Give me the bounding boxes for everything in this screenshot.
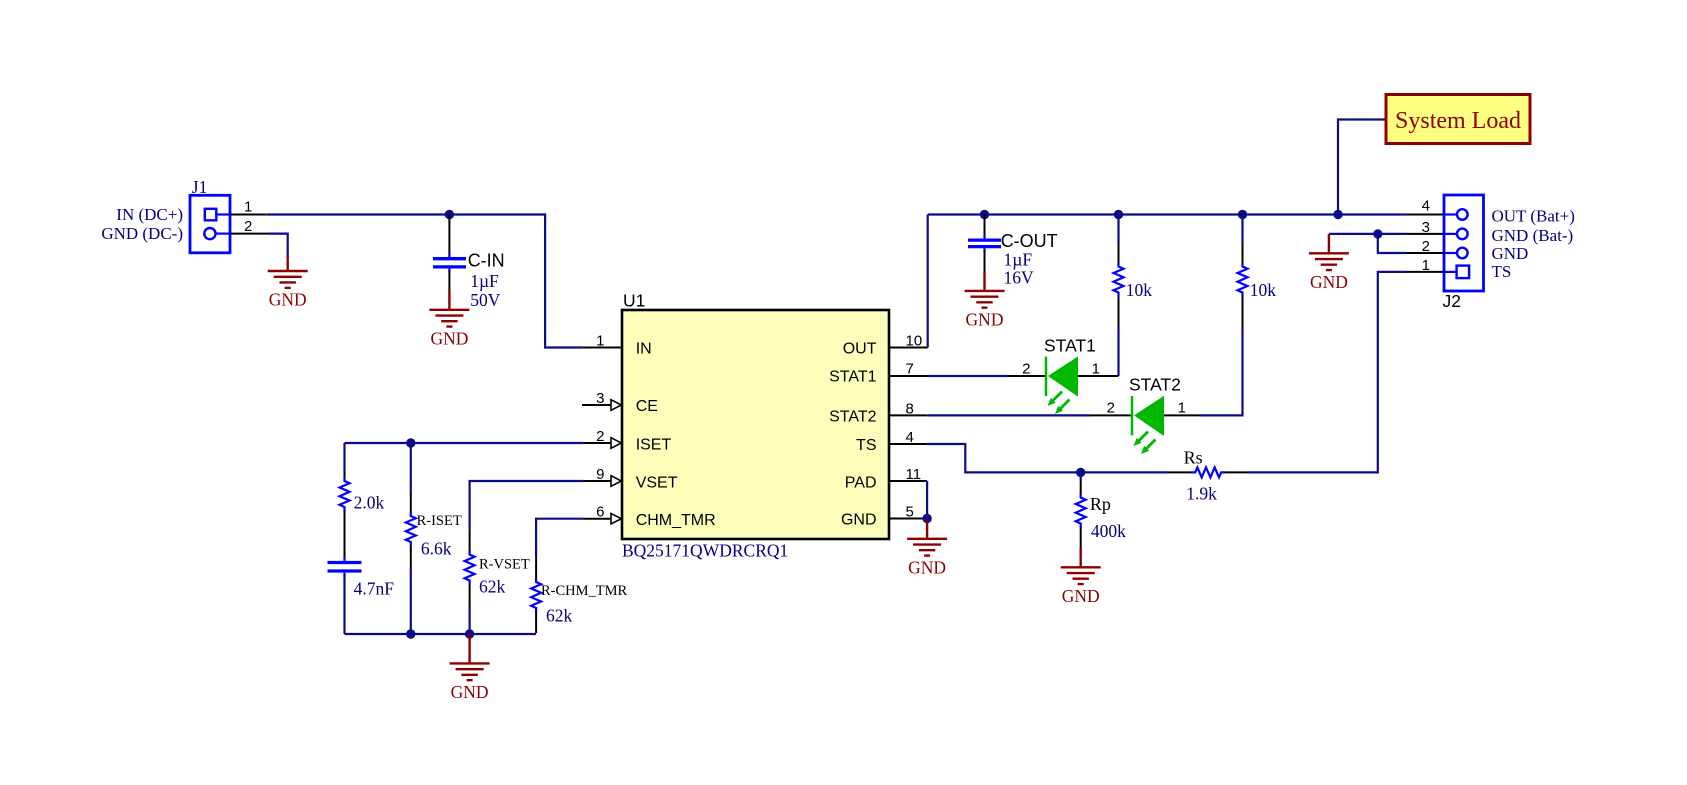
svg-text:1µF: 1µF (1004, 250, 1033, 270)
svg-text:1.9k: 1.9k (1186, 484, 1217, 504)
resistor R2 10k (1238, 215, 1248, 416)
svg-text:5: 5 (906, 504, 914, 521)
ground J1 (287, 255, 289, 271)
wire TS from U1 (926, 444, 1167, 472)
svg-text:400k: 400k (1091, 521, 1126, 541)
svg-text:2.0k: 2.0k (354, 493, 385, 513)
wire ISET net (345, 442, 584, 444)
pin 8 STAT2 stub (889, 414, 928, 416)
svg-text:10k: 10k (1126, 280, 1153, 300)
node bottom R-ISET (406, 629, 415, 638)
svg-text:6: 6 (596, 504, 604, 521)
svg-text:1: 1 (1178, 399, 1186, 416)
pin 6 CHM_TMR stub with input arrow (583, 518, 611, 520)
wire CHM_TMR net (536, 519, 583, 558)
svg-text:STAT2: STAT2 (1129, 375, 1181, 395)
wire J1 pin2 to ground (269, 234, 288, 256)
svg-text:8: 8 (906, 400, 914, 417)
svg-text:OUT (Bat+): OUT (Bat+) (1492, 206, 1575, 225)
wire OUT riser (927, 215, 929, 348)
wire J1 pin1 lead (230, 214, 267, 216)
svg-text:9: 9 (596, 466, 604, 483)
pin 1 IN stub (583, 347, 622, 349)
svg-text:U1: U1 (623, 291, 645, 311)
svg-text:STAT1: STAT1 (829, 368, 877, 385)
svg-text:CHM_TMR: CHM_TMR (636, 512, 716, 529)
svg-text:GND (Bat-): GND (Bat-) (1492, 226, 1574, 245)
svg-text:BQ25171QWDRCRQ1: BQ25171QWDRCRQ1 (622, 541, 788, 561)
node TS Rp junction (1076, 468, 1085, 477)
svg-text:1: 1 (244, 199, 252, 216)
svg-text:62k: 62k (479, 577, 506, 597)
svg-text:C-OUT: C-OUT (1001, 231, 1058, 251)
ground J2 (1328, 234, 1330, 253)
svg-text:2: 2 (1022, 360, 1030, 377)
svg-text:1: 1 (596, 333, 604, 350)
svg-text:GND (DC-): GND (DC-) (101, 224, 183, 243)
svg-text:IN: IN (636, 341, 652, 358)
IC U1 body (622, 310, 889, 539)
node J2 GND junction (1373, 229, 1382, 238)
resistor Rs 1.9k (1167, 467, 1248, 477)
wire STAT1 from U1 (928, 375, 1008, 377)
resistor Rp 400k (1076, 472, 1086, 549)
node VIN C-IN junction (445, 210, 454, 219)
ground C-IN (448, 290, 450, 310)
svg-text:11: 11 (906, 466, 922, 483)
capacitor C-IN (433, 215, 466, 292)
LED STAT1 (1008, 356, 1119, 414)
svg-text:Rp: Rp (1090, 494, 1111, 514)
node C-OUT junction (980, 210, 989, 219)
pin 4 TS stub (889, 443, 926, 445)
svg-text:4: 4 (906, 429, 914, 446)
resistor R-ISET 6.6k (406, 443, 416, 634)
ground Rp (1079, 548, 1081, 567)
capacitor C-OUT (968, 215, 1001, 273)
pin 9 VSET stub with input arrow (583, 480, 611, 482)
svg-text:3: 3 (596, 390, 604, 407)
svg-text:6.6k: 6.6k (421, 539, 452, 559)
pin 11 PAD stub (889, 480, 927, 482)
connector J2 (1444, 195, 1484, 291)
wire J2 pin3 lead (1378, 233, 1444, 235)
wire J2 pin2 lead (1378, 234, 1444, 253)
node R1 junction (1114, 210, 1123, 219)
svg-text:R-VSET: R-VSET (479, 557, 530, 573)
capacitor 4.7nF (328, 557, 362, 635)
svg-text:PAD: PAD (845, 474, 877, 491)
ground bottom bus (468, 634, 470, 663)
svg-text:IN (DC+): IN (DC+) (116, 205, 183, 224)
svg-text:4.7nF: 4.7nF (354, 579, 395, 599)
resistor R-VSET 62k (465, 530, 475, 634)
wire STAT2 to R2 (1200, 414, 1244, 416)
svg-text:10k: 10k (1250, 280, 1277, 300)
svg-text:GND: GND (1492, 244, 1529, 263)
svg-text:10: 10 (906, 332, 923, 349)
svg-text:1: 1 (1422, 257, 1430, 274)
svg-text:STAT1: STAT1 (1044, 336, 1096, 356)
node bottom R-VSET (465, 629, 474, 638)
wire TS to J2 pin1 (1248, 272, 1406, 473)
svg-text:1: 1 (1092, 360, 1100, 377)
pin 5 GND stub (889, 518, 923, 520)
node system load junction (1333, 210, 1342, 219)
LED STAT2 (1090, 396, 1200, 454)
svg-text:J2: J2 (1443, 291, 1461, 311)
svg-text:2: 2 (1422, 238, 1430, 255)
svg-text:2: 2 (1107, 399, 1115, 416)
wire J2 pin4 lead (1406, 214, 1444, 216)
svg-text:OUT: OUT (843, 341, 877, 358)
svg-text:62k: 62k (546, 606, 573, 626)
wire VOUT bus (928, 213, 1406, 215)
wire VIN from J1 to U1 IN (267, 215, 584, 348)
node R2 junction (1238, 210, 1247, 219)
svg-text:J1: J1 (192, 177, 208, 197)
wire VSET net (470, 481, 584, 530)
svg-text:3: 3 (1422, 219, 1430, 236)
resistor 2.0k (340, 443, 350, 557)
wire PAD to GND node (926, 481, 928, 519)
svg-text:50V: 50V (470, 290, 501, 310)
svg-text:CE: CE (636, 398, 658, 415)
svg-text:7: 7 (906, 360, 914, 377)
svg-text:R-ISET: R-ISET (417, 513, 462, 529)
node U1 GND junction (922, 514, 931, 523)
block system load (1386, 95, 1530, 144)
svg-text:VSET: VSET (636, 474, 678, 491)
wire GND J2 (1329, 233, 1378, 235)
pin 2 ISET stub with input arrow (583, 442, 611, 444)
pin 3 CE stub with input arrow (582, 404, 611, 406)
svg-text:ISET: ISET (636, 436, 672, 453)
connector J1 (190, 195, 230, 253)
svg-text:2: 2 (244, 218, 252, 235)
svg-text:TS: TS (856, 437, 876, 454)
svg-text:GND: GND (841, 512, 877, 529)
svg-text:C-IN: C-IN (468, 251, 505, 271)
pin 7 STAT1 stub (889, 375, 928, 377)
wire system load (1338, 120, 1386, 215)
svg-text:R-CHM_TMR: R-CHM_TMR (541, 583, 628, 599)
wire STAT2 from U1 (928, 414, 1090, 416)
svg-text:1µF: 1µF (470, 271, 499, 291)
svg-text:System Load: System Load (1395, 108, 1521, 134)
node ISET R-ISET junction (406, 438, 415, 447)
svg-text:STAT2: STAT2 (829, 408, 877, 425)
svg-text:TS: TS (1492, 262, 1512, 281)
svg-text:4: 4 (1422, 198, 1430, 215)
resistor R-CHM_TMR 62k (531, 557, 541, 633)
ground U1 pin5 (926, 520, 928, 539)
pin 10 OUT stub (889, 347, 928, 349)
wire J1 pin2 lead (230, 233, 269, 235)
ground C-OUT (983, 272, 985, 291)
svg-text:Rs: Rs (1184, 448, 1203, 468)
wire J2 pin1 lead (1406, 271, 1444, 273)
svg-text:2: 2 (596, 428, 604, 445)
resistor R1 10k (1114, 215, 1124, 377)
svg-text:16V: 16V (1004, 268, 1035, 288)
wire bottom ground bus (345, 633, 537, 635)
